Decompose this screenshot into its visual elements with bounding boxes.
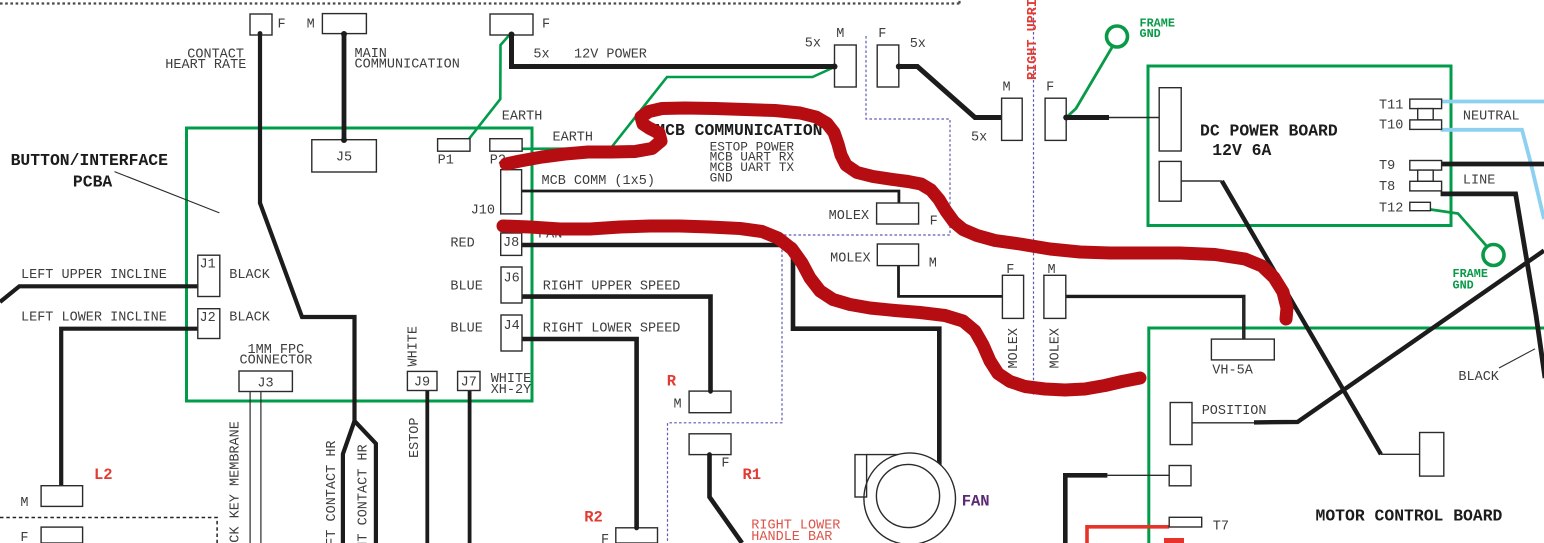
svg-text:XH-2Y: XH-2Y bbox=[491, 383, 532, 398]
svg-text:EARTH: EARTH bbox=[502, 110, 543, 125]
svg-text:M: M bbox=[1048, 263, 1056, 278]
svg-text:LINE: LINE bbox=[1463, 173, 1495, 188]
DC board input connector bbox=[1159, 88, 1181, 151]
svg-text:POSITION: POSITION bbox=[1202, 404, 1267, 419]
svg-text:MOLEX: MOLEX bbox=[829, 209, 870, 224]
wire earth green F to P1 bbox=[469, 34, 511, 140]
svg-text:WHITE: WHITE bbox=[407, 326, 422, 367]
svg-text:RIGHT LOWER SPEED: RIGHT LOWER SPEED bbox=[543, 321, 681, 336]
svg-text:J10: J10 bbox=[471, 204, 495, 219]
wire J4 right lower speed bbox=[522, 339, 637, 528]
svg-text:5x: 5x bbox=[910, 37, 926, 52]
connector F molex vertical bbox=[1002, 275, 1023, 318]
terminal link T11-T10 bbox=[1418, 109, 1434, 120]
svg-text:F: F bbox=[878, 27, 886, 42]
connector J5 bbox=[312, 140, 377, 172]
frame ground symbol right (from T12) bbox=[1431, 210, 1505, 266]
svg-text:QUICK KEY MEMBRANE: QUICK KEY MEMBRANE bbox=[229, 421, 244, 543]
svg-text:COMMUNICATION: COMMUNICATION bbox=[355, 58, 460, 73]
connector small MCB bbox=[1169, 466, 1191, 486]
svg-text:MOLEX: MOLEX bbox=[1007, 328, 1022, 369]
svg-text:MOLEX: MOLEX bbox=[830, 252, 871, 267]
svg-text:J7: J7 bbox=[461, 376, 477, 391]
wire line T9 bbox=[1441, 162, 1544, 167]
connector P2 bbox=[490, 139, 522, 152]
svg-text:MCB COMMUNICATION: MCB COMMUNICATION bbox=[655, 121, 822, 140]
connector M main communication bbox=[322, 14, 366, 34]
connector F contact heart rate bbox=[250, 14, 272, 35]
VH-5A riser thin bbox=[1243, 297, 1245, 340]
svg-text:RIGHT UPRIGHT: RIGHT UPRIGHT bbox=[1026, 0, 1041, 80]
svg-text:GND: GND bbox=[1140, 27, 1161, 41]
connector J2 bbox=[198, 309, 220, 339]
svg-text:P1: P1 bbox=[438, 153, 454, 168]
svg-text:R: R bbox=[667, 373, 677, 391]
wire motor board lower left bbox=[1065, 475, 1169, 543]
svg-text:LEFT UPPER INCLINE: LEFT UPPER INCLINE bbox=[21, 268, 167, 283]
svg-text:5x: 5x bbox=[971, 131, 987, 146]
svg-text:F: F bbox=[721, 456, 729, 471]
terminal T9 bbox=[1410, 161, 1442, 171]
svg-text:LEFT LOWER INCLINE: LEFT LOWER INCLINE bbox=[21, 311, 167, 326]
svg-text:BLACK: BLACK bbox=[229, 311, 270, 326]
svg-text:T8: T8 bbox=[1379, 180, 1395, 195]
wire line T8 bbox=[1441, 194, 1544, 378]
wire left upper incline bbox=[0, 286, 198, 302]
cable boundary dashed upright/base bbox=[1033, 8, 1035, 396]
connector R2 F bbox=[616, 528, 658, 543]
svg-text:BUTTON/INTERFACE: BUTTON/INTERFACE bbox=[11, 151, 169, 170]
svg-text:VH-5A: VH-5A bbox=[1212, 364, 1253, 379]
wire neutral T10 light blue bbox=[1441, 130, 1544, 219]
connector MCB right bbox=[1420, 433, 1444, 477]
svg-text:PCBA: PCBA bbox=[73, 173, 113, 192]
svg-text:R2: R2 bbox=[584, 509, 603, 527]
connector M molex vertical bbox=[1044, 275, 1066, 318]
terminal T10 bbox=[1410, 120, 1442, 129]
svg-text:J8: J8 bbox=[503, 236, 519, 251]
svg-text:J6: J6 bbox=[504, 272, 520, 287]
svg-text:J5: J5 bbox=[336, 151, 352, 166]
svg-text:5x: 5x bbox=[805, 37, 821, 52]
svg-text:J3: J3 bbox=[257, 377, 273, 392]
wire right contact HR branch bbox=[355, 421, 376, 543]
connector F upright bbox=[1045, 98, 1066, 140]
svg-text:F: F bbox=[278, 18, 286, 33]
svg-text:ESTOP: ESTOP bbox=[408, 417, 423, 458]
svg-text:J1: J1 bbox=[200, 258, 216, 273]
wire J7 bbox=[468, 391, 472, 543]
svg-text:12V 6A: 12V 6A bbox=[1212, 141, 1271, 160]
connector POSITION bbox=[1170, 403, 1192, 445]
dashed enclosure bottom-left bbox=[0, 518, 217, 543]
wire neutral T11 light blue bbox=[1441, 100, 1544, 104]
svg-text:DC POWER BOARD: DC POWER BOARD bbox=[1200, 121, 1338, 140]
board outline MOTOR CONTROL BOARD bbox=[1149, 328, 1544, 543]
svg-text:T11: T11 bbox=[1379, 99, 1403, 114]
wire J8 fan bbox=[522, 245, 939, 466]
board outline BUTTON/INTERFACE PCBA bbox=[187, 128, 533, 401]
svg-text:CONNECTOR: CONNECTOR bbox=[240, 353, 313, 368]
svg-text:RED: RED bbox=[450, 237, 474, 252]
svg-text:MCB COMM (1x5): MCB COMM (1x5) bbox=[542, 174, 655, 189]
sheet border (top dashed) bbox=[0, 0, 960, 4]
svg-text:12V POWER: 12V POWER bbox=[574, 47, 647, 62]
svg-text:GND: GND bbox=[1453, 279, 1474, 293]
svg-text:L2: L2 bbox=[94, 466, 113, 484]
wire 12V power bbox=[512, 34, 835, 67]
terminal T8 bbox=[1410, 181, 1442, 191]
svg-text:M: M bbox=[20, 496, 28, 511]
svg-text:BLUE: BLUE bbox=[450, 279, 482, 294]
wire MOLEX M to F connector bbox=[899, 266, 1003, 297]
connector J8 bbox=[501, 233, 522, 255]
connector M 5x bbox=[835, 45, 857, 87]
svg-text:FAN: FAN bbox=[962, 493, 990, 511]
wire J9 estop bbox=[425, 391, 429, 543]
terminal T12 bbox=[1410, 202, 1431, 210]
wire J6 right upper speed bbox=[522, 297, 711, 392]
svg-text:GND: GND bbox=[710, 170, 733, 185]
marker annotation lower stroke bbox=[503, 226, 1140, 390]
wire left lower incline to L2 bbox=[61, 329, 198, 486]
svg-text:T7: T7 bbox=[1213, 520, 1229, 535]
svg-text:F: F bbox=[20, 531, 28, 543]
svg-text:J2: J2 bbox=[200, 311, 216, 326]
connector J6 bbox=[501, 267, 522, 303]
leader line BLACK bbox=[1499, 349, 1535, 368]
svg-text:F: F bbox=[1046, 81, 1054, 96]
connector J3 bbox=[239, 371, 292, 392]
wire R1 handle bar bbox=[710, 455, 743, 543]
svg-text:M: M bbox=[836, 27, 844, 42]
connector F 12V power bbox=[490, 14, 533, 35]
svg-text:M: M bbox=[674, 398, 682, 413]
leader line BUTTON/INTERFACE PCBA bbox=[115, 172, 220, 213]
svg-text:J9: J9 bbox=[414, 376, 430, 391]
connector J9 bbox=[407, 371, 437, 390]
svg-text:HANDLE BAR: HANDLE BAR bbox=[751, 530, 832, 543]
connector J1 bbox=[198, 255, 220, 296]
cable boundary dashed console/upright bbox=[668, 36, 951, 543]
wire position diagonal black bbox=[1192, 251, 1544, 423]
wire F to DC board thin bbox=[1109, 117, 1159, 119]
svg-text:RIGHT CONTACT HR: RIGHT CONTACT HR bbox=[357, 444, 372, 543]
connector J4 bbox=[501, 315, 522, 351]
wire MCB COMM J10 to MOLEX bbox=[522, 191, 899, 204]
connector L2 F bbox=[41, 527, 83, 543]
wire T7 red bbox=[1087, 527, 1169, 543]
svg-text:R1: R1 bbox=[743, 466, 762, 484]
fan blower icon bbox=[855, 453, 956, 543]
connector M upright bbox=[1002, 98, 1023, 140]
connector J10 bbox=[501, 170, 522, 214]
svg-text:MOTOR CONTROL BOARD: MOTOR CONTROL BOARD bbox=[1316, 507, 1503, 526]
board outline DC POWER BOARD bbox=[1148, 66, 1451, 226]
svg-text:T10: T10 bbox=[1379, 119, 1403, 134]
svg-text:BLACK: BLACK bbox=[229, 268, 270, 283]
wire 5x F to M link bbox=[899, 67, 1002, 118]
wire DC connector diagonal bbox=[1181, 181, 1419, 454]
svg-text:RIGHT UPPER SPEED: RIGHT UPPER SPEED bbox=[543, 279, 681, 294]
svg-text:HEART RATE: HEART RATE bbox=[165, 58, 246, 73]
connector MOLEX M bbox=[877, 244, 918, 266]
connector L2 M bbox=[41, 486, 83, 507]
marker annotation upper stroke bbox=[506, 108, 1287, 319]
svg-text:BLUE: BLUE bbox=[450, 321, 482, 336]
connector F 5x bbox=[877, 45, 899, 87]
svg-text:F: F bbox=[542, 18, 550, 33]
svg-text:MOLEX: MOLEX bbox=[1049, 328, 1064, 369]
svg-text:EARTH: EARTH bbox=[553, 130, 594, 145]
connector R M bbox=[689, 391, 731, 413]
svg-text:J4: J4 bbox=[504, 319, 520, 334]
svg-text:M: M bbox=[1003, 81, 1011, 96]
wire F to DC board thick stub bbox=[1066, 115, 1109, 120]
wire main communication riser bbox=[342, 34, 347, 141]
DC board output connector bbox=[1159, 161, 1181, 201]
svg-text:LEFT CONTACT HR: LEFT CONTACT HR bbox=[325, 440, 340, 543]
svg-text:NEUTRAL: NEUTRAL bbox=[1463, 110, 1520, 125]
connector R1 F bbox=[689, 434, 731, 455]
red connector stub bottom bbox=[1164, 538, 1184, 543]
terminal T11 bbox=[1410, 99, 1442, 109]
svg-text:T12: T12 bbox=[1379, 202, 1403, 217]
wire M connector to VH-5A bbox=[1066, 296, 1244, 340]
connector MOLEX F bbox=[877, 203, 919, 224]
svg-text:F: F bbox=[930, 215, 938, 230]
svg-text:M: M bbox=[929, 257, 937, 272]
wire earth green P2 to M connector bbox=[522, 67, 835, 149]
connector VH-5A bbox=[1211, 339, 1274, 360]
terminal link T9-T8 bbox=[1418, 170, 1434, 181]
FPC ribbon lines bbox=[250, 392, 261, 543]
wire left contact HR branch bbox=[343, 421, 355, 543]
svg-text:BLACK: BLACK bbox=[1458, 370, 1499, 385]
svg-text:5x: 5x bbox=[533, 47, 549, 62]
svg-text:F: F bbox=[601, 533, 609, 543]
wire contact heart rate trunk bbox=[260, 33, 355, 423]
connector J7 bbox=[458, 371, 480, 390]
svg-text:F: F bbox=[1006, 263, 1014, 278]
svg-text:T9: T9 bbox=[1379, 159, 1395, 174]
terminal T7 bbox=[1169, 517, 1202, 527]
frame ground symbol top bbox=[1066, 26, 1127, 118]
svg-text:M: M bbox=[307, 17, 315, 32]
connector P1 bbox=[438, 139, 470, 152]
